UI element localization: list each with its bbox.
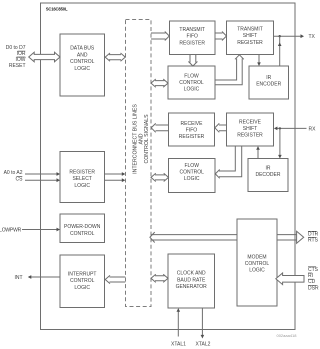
wire: bus to TRANSMIT FIFO REGISTER (open arrow right) [151,32,169,41]
svg-text:INTERRUPT: INTERRUPT [68,272,97,278]
svg-text:POWER-DOWN: POWER-DOWN [64,224,101,230]
svg-text:FIFO: FIFO [186,127,197,133]
svg-text:DSR: DSR [308,286,319,292]
svg-text:FIFO: FIFO [187,34,198,40]
wire: RECEIVE SHIFT to RECEIVE FIFO (open arrow left) [215,123,227,132]
svg-text:002aaa418: 002aaa418 [276,333,297,338]
block: DATA BUS AND CONTROL LOGIC [60,34,105,96]
label CTS (active low) [308,267,319,273]
interconnect bus (dashed) [126,20,152,307]
svg-text:TX: TX [309,34,316,40]
svg-text:XTAL2: XTAL2 [196,342,211,348]
wire: REGISTER SELECT LOGIC to bus (A0-A2) [105,173,123,175]
svg-text:REGISTER: REGISTER [237,133,263,139]
wire: IR DECODER output up into RECEIVE SHIFT REGISTER [257,149,259,159]
label DTR (active low) [308,231,319,237]
wire: TRANSMIT SHIFT REGISTER down into IR ENCODER [258,55,260,64]
block: TRANSMIT SHIFT REGISTER [227,21,274,55]
wire: bus to CLOCK AND BAUD RATE GENERATOR (open double arrow) [151,274,168,282]
wire: RX input line to RECEIVE SHIFT REGISTER [277,127,307,129]
svg-text:IR: IR [266,165,271,171]
svg-text:RI: RI [308,273,313,279]
wire: RX line down into IR DECODER [279,128,281,155]
svg-text:INTERCONNECT BUS LINES: INTERCONNECT BUS LINES [132,104,138,174]
svg-text:CD: CD [308,279,316,285]
svg-text:LOGIC: LOGIC [184,176,200,182]
svg-text:FLOW: FLOW [184,73,199,79]
outer chip boundary [41,3,296,330]
svg-text:TRANSMIT: TRANSMIT [179,27,205,33]
block: POWER-DOWN CONTROL [60,214,105,243]
block: CLOCK AND BAUD RATE GENERATOR [168,254,215,308]
block: IR DECODER [248,159,288,192]
wire: INT output from INTERRUPT CONTROL LOGIC [31,276,60,278]
wire: TRANSMIT FIFO to TRANSMIT SHIFT (open arrow right) [215,32,227,41]
wire: A0 to A2 into REGISTER SELECT LOGIC [25,173,57,175]
svg-text:CONTROL: CONTROL [245,261,270,267]
svg-text:DATA BUS: DATA BUS [70,46,95,52]
svg-text:REGISTER: REGISTER [179,40,205,46]
wire: TRANSMIT FIFO down to FLOW CONTROL (open arrow down) [188,55,197,67]
svg-text:CS: CS [16,177,24,183]
svg-text:A0 to A2: A0 to A2 [4,170,23,176]
svg-text:AND: AND [77,52,88,58]
wire: LOWPWR into POWER-DOWN CONTROL [22,229,57,231]
svg-text:LOGIC: LOGIC [249,268,265,274]
svg-text:CONTROL: CONTROL [70,278,95,284]
svg-text:LOGIC: LOGIC [74,66,90,72]
svg-text:ENCODER: ENCODER [256,82,281,88]
wire: bus to INTERRUPT CONTROL LOGIC (open arrow left) [105,275,125,283]
label DSR (active low) [308,286,319,292]
label CS (active low) [16,177,24,183]
svg-text:CTS: CTS [308,267,319,273]
svg-text:SC16C850L: SC16C850L [46,7,68,12]
wire: XTAL1 input into CLOCK generator [177,311,179,337]
svg-text:RX: RX [309,126,317,132]
svg-text:CONTROL: CONTROL [70,231,95,237]
block: INTERRUPT CONTROL LOGIC [60,255,105,308]
wire: host bus double hollow arrow into DATA BUS block [29,52,60,62]
svg-text:CONTROL: CONTROL [179,170,204,176]
block: REGISTER SELECT LOGIC [60,152,105,203]
wire: FLOW CONTROL (tx) to bus (open double arrow) [151,79,168,87]
svg-text:REGISTER: REGISTER [69,170,95,176]
svg-text:CONTROL: CONTROL [179,80,204,86]
node: TX junction [279,35,281,37]
svg-text:XTAL1: XTAL1 [171,342,186,348]
svg-text:SELECT: SELECT [72,176,91,182]
wire: XTAL2 output from CLOCK generator [201,308,203,336]
svg-text:IR: IR [266,75,271,81]
wire: RECEIVE SHIFT REGISTER L-shaped open arrow into FLOW CONTROL (rx) [215,146,241,178]
node: RX junction [279,127,281,129]
svg-text:REGISTER: REGISTER [237,40,263,46]
svg-text:SHIFT: SHIFT [243,33,257,39]
wire: REGISTER SELECT LOGIC to bus (CS) [105,179,123,181]
svg-text:GENERATOR: GENERATOR [176,284,208,290]
block: FLOW CONTROL LOGIC (receive) [169,159,216,193]
wire: bus to MODEM CONTROL (DTR/RTS, open head at bus) [150,232,237,242]
wire: FLOW CONTROL (tx) L-shaped open arrow up into TRANSMIT SHIFT REGISTER [215,55,244,85]
label IOW (active low) [16,57,26,63]
block: IR ENCODER [249,66,289,99]
wire: DTR/RTS output from MODEM CONTROL (hollow arrow out) [277,231,304,243]
wire: DATA BUS block to interconnect bus (open double arrow) [105,53,125,61]
wire: IR ENCODER output up to TX line [279,36,281,66]
svg-text:TRANSMIT: TRANSMIT [237,27,263,33]
svg-text:IOW: IOW [16,57,26,63]
svg-text:LOGIC: LOGIC [184,87,200,93]
svg-text:CLOCK AND: CLOCK AND [177,271,206,277]
block: TRANSMIT FIFO REGISTER [170,21,216,55]
svg-text:LOWPWR: LOWPWR [0,227,22,233]
wire: CS into REGISTER SELECT LOGIC [25,179,57,181]
label IOR (active low) [17,51,26,57]
svg-text:RTS: RTS [308,237,319,243]
svg-text:RECEIVE: RECEIVE [239,120,262,126]
svg-text:LOGIC: LOGIC [74,183,90,189]
svg-text:FLOW: FLOW [184,163,199,169]
label RI (active low) [308,273,313,279]
wire: bus to FLOW CONTROL (rx) (open double arrow) [151,173,169,181]
svg-text:BAUD RATE: BAUD RATE [177,277,206,283]
svg-text:RESET: RESET [9,63,26,69]
wire: TX output line from TRANSMIT SHIFT REGISTER [274,35,302,37]
label CD (active low) [308,279,316,285]
block: RECEIVE SHIFT REGISTER [227,113,274,146]
svg-text:CONTROL SIGNALS: CONTROL SIGNALS [144,114,150,164]
block: MODEM CONTROL LOGIC [237,219,277,306]
svg-text:INT: INT [14,275,22,281]
svg-text:LOGIC: LOGIC [74,285,90,291]
svg-text:MODEM: MODEM [247,255,266,261]
block: FLOW CONTROL LOGIC (transmit) [168,66,215,99]
wire: CTS/RI/CD/DSR hollow arrow into MODEM CONTROL [276,273,304,285]
svg-text:CONTROL: CONTROL [70,59,95,65]
svg-text:REGISTER: REGISTER [179,134,205,140]
svg-text:DECODER: DECODER [255,172,280,178]
svg-text:SHIFT: SHIFT [243,126,257,132]
wire: RECEIVE FIFO to bus (open arrow left) [151,123,168,132]
svg-text:RECEIVE: RECEIVE [181,121,204,127]
block: RECEIVE FIFO REGISTER [169,113,215,146]
svg-text:DTR: DTR [308,231,319,237]
label RTS (active low) [308,237,319,243]
